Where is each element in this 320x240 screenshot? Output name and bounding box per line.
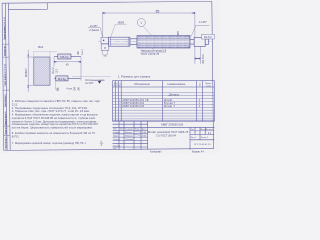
strip divider c (3, 89, 9, 91)
ext line left overall (102, 12, 104, 37)
title col t1 (118, 121, 120, 150)
left margin strip line 2 (inner frame) (8, 3, 10, 150)
right end dimension (195, 47, 200, 64)
row line 9 (113, 115, 215, 117)
row line 6 (113, 106, 215, 108)
neck section (130, 39, 137, 45)
strip text mass blobs (4, 17, 6, 148)
row line 10 (113, 118, 215, 120)
strip divider e (4, 135, 10, 137)
thread chamfer line left (110, 37, 112, 46)
row line 3 (113, 98, 215, 100)
row line 5 (113, 103, 215, 105)
pin A body line (54, 56, 81, 58)
left margin strip line 1 (5, 3, 7, 150)
pin A dimension (54, 57, 81, 80)
thread callout leader (5f9) (111, 20, 127, 37)
table col line 1 (114, 81, 116, 121)
table col line 6 (qty/note) (201, 81, 203, 121)
right grid line v1 (194, 127, 196, 134)
pin A thread label box (58, 54, 71, 59)
groove (190, 39, 194, 44)
end tip (205, 39, 208, 45)
right grid h3 (190, 139, 214, 141)
title col middle/right (189, 127, 191, 149)
table col line 2 (117, 81, 119, 121)
title col t4 (140, 121, 142, 150)
square head (101, 37, 109, 43)
table col line 3 (120, 81, 122, 121)
title row line r6 (113, 146, 148, 148)
thread minor line top (110, 38, 130, 40)
knurled section (137, 36, 190, 49)
pin B thread label box (56, 76, 68, 81)
title header izm/list (113, 128, 147, 131)
table row 3 (122, 104, 200, 108)
thread chamfer line right (127, 37, 129, 46)
table row 2 (122, 101, 200, 105)
remaining-surfaces roughness note (72, 76, 111, 85)
knurl center stripe (137, 41, 189, 43)
title row line r5 (113, 143, 148, 145)
threaded section outline (109, 37, 130, 46)
bushing left dimension (27, 50, 33, 92)
right grid h1 (190, 130, 214, 132)
top-left designation box (8, 3, 47, 10)
knurl right chamfer bottom (187, 46, 190, 48)
title row line r3 (113, 136, 148, 138)
strip divider a (3, 43, 9, 45)
title row line r4 (113, 139, 148, 141)
title row line r1 (113, 130, 148, 132)
knurl right chamfer top (187, 36, 190, 38)
chamfer note right 1x45 (191, 20, 209, 36)
row line 2 (113, 95, 215, 97)
title block outer top (113, 120, 215, 122)
pin B body line (54, 77, 81, 79)
paper background (0, 0, 220, 153)
end cylinder (194, 37, 205, 46)
scan grain overlay (0, 0, 220, 153)
row line 1 (113, 92, 215, 94)
title col t5 (left part end) (147, 121, 149, 150)
right grid line v3 (204, 127, 206, 134)
table outer (113, 81, 215, 121)
border frame outer (2, 1, 213, 150)
square head center dot (103, 40, 104, 41)
table col line 4 (designation/name) (162, 81, 164, 121)
strip divider d (4, 125, 10, 127)
title col t3 (133, 121, 135, 150)
thread minor line bottom (110, 43, 130, 45)
bushing top dimension (34, 51, 57, 57)
row line 4 (113, 101, 215, 103)
surface finish box top right (202, 34, 215, 39)
table row 1 (122, 98, 200, 102)
list cells (191, 137, 208, 139)
chamfer note left (2x45 / 2 фаски) (88, 24, 103, 37)
table header underline (113, 86, 215, 88)
note 7 fraction (100, 141, 104, 147)
title signature scribbles (125, 131, 146, 141)
strip divider b (3, 56, 9, 58)
row line 7 (113, 109, 215, 111)
title row line r2 (113, 133, 148, 135)
overall dimension line 85 (103, 12, 195, 14)
right grid line v2 (199, 127, 201, 140)
title col t2 (123, 121, 125, 150)
framed dim below square head (101, 44, 109, 58)
title header row line (113, 126, 215, 128)
table col line 5 (name/qty) (196, 81, 198, 121)
title row labels (113, 132, 121, 150)
roughness balloon (137, 19, 151, 36)
row line 8 (113, 112, 215, 114)
ext line right overall (194, 12, 196, 37)
bushing hatched rect (34, 57, 50, 85)
right headers (191, 129, 214, 131)
pin B below-left ext (55, 81, 57, 90)
title left spare row line (113, 123, 148, 125)
shaft centerline (99, 41, 213, 43)
right grid h2 (190, 134, 214, 136)
knurl note below (141, 48, 167, 56)
